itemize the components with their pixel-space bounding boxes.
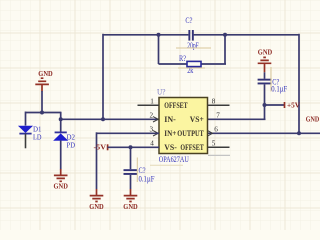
capacitor C? 20pF (185, 15, 199, 50)
svg-text:8: 8 (212, 98, 216, 106)
wire feedback right vertical to output (298, 34, 300, 134)
svg-text:GND: GND (89, 202, 104, 211)
capacitor C? 0.1uF (VS+ decoupling) (258, 78, 288, 94)
resistor R? 2k (179, 54, 201, 75)
junction at feedback left (157, 33, 161, 37)
svg-text:5: 5 (212, 140, 216, 148)
svg-text:OUTPUT: OUTPUT (177, 129, 204, 138)
wire cap down to +5V junction (264, 84, 266, 119)
pin 8 stub (208, 98, 230, 106)
svg-text:LD: LD (33, 132, 42, 141)
svg-text:3: 3 (150, 126, 154, 134)
pin 4 VS- stub (150, 140, 154, 148)
svg-text:0.1µF: 0.1µF (139, 174, 155, 183)
svg-text:GND: GND (54, 182, 69, 191)
diode D1 LD (19, 112, 42, 149)
wire left horizontal upper (D1 to jog) (26, 112, 61, 114)
svg-text:PD: PD (67, 140, 76, 149)
junction output / feedback (297, 131, 301, 135)
junction at feedback right (223, 33, 227, 37)
junction at jog / D2 top (59, 117, 63, 121)
svg-text:-5V: -5V (94, 143, 107, 152)
wire resistor left lead (159, 63, 188, 65)
wire VS+ pin7 to +5V branch (208, 118, 266, 120)
wire cap to ground (130, 175, 132, 189)
gray mark under pin5 (208, 154, 230, 156)
wire top-right gnd to cap (264, 72, 266, 79)
svg-text:GND: GND (258, 48, 273, 57)
wire resistor right lead (201, 63, 226, 65)
wire -5V to pin 4 (108, 146, 159, 148)
wire junction down to cap (130, 147, 132, 169)
pin 5 OFFSET stub (208, 140, 230, 148)
svg-text:IN-: IN- (164, 115, 176, 124)
svg-text:U?: U? (157, 88, 166, 97)
svg-text:VS+: VS+ (190, 115, 204, 124)
wire IN+ vertical down (96, 132, 98, 189)
junction +5V node (263, 103, 267, 107)
pin 7 VS+ (216, 112, 220, 120)
diode D2 PD (54, 112, 76, 170)
pin 6 OUTPUT arrow (208, 126, 218, 136)
tan mark at right cap (270, 67, 272, 92)
pin 3 IN+ arrow (150, 126, 159, 136)
wire feedback top horizontal left segment (103, 34, 188, 36)
ground GND top-left (35, 69, 53, 92)
op-amp U? OPA627AU body (157, 88, 208, 165)
power port -5V (94, 143, 108, 152)
IC label IN- pin2 (164, 115, 176, 124)
ground GND under bottom cap (123, 189, 138, 211)
svg-text:OPA627AU: OPA627AU (159, 155, 189, 164)
svg-text:2k: 2k (187, 66, 193, 75)
svg-text:VS-: VS- (164, 143, 177, 152)
IC label IN+ pin3 (164, 129, 176, 138)
junction of GND wire on upper wire (40, 111, 44, 115)
resistor R? branch right vertical (224, 35, 226, 64)
tan mark under OPA627AU (150, 164, 183, 166)
ground GND under D2 (54, 169, 69, 191)
wire +5V stub (265, 104, 285, 106)
junction VS- / cap branch (129, 145, 133, 149)
junction IN- / feedback vertical (101, 117, 105, 121)
wire feedback top horizontal right segment (194, 34, 299, 36)
tan mark under 2k (178, 67, 205, 69)
ground GND under IN+ wire (89, 189, 104, 211)
svg-text:4: 4 (150, 140, 154, 148)
wire OUTPUT pin6 to right edge (208, 132, 320, 134)
tan mark under 20pF (176, 47, 211, 49)
capacitor C? 0.1uF (VS- decoupling) (124, 166, 155, 183)
svg-text:7: 7 (216, 112, 220, 120)
wire feedback left vertical to IN- (102, 34, 104, 120)
pin 2 IN- arrow (150, 112, 159, 122)
resistor R? branch left vertical (158, 35, 160, 64)
wire IN- horizontal from jog to IC pin2 (61, 118, 159, 120)
pin 1 OFFSET stub (138, 98, 160, 106)
tan mark at bottom cap (136, 158, 138, 183)
svg-text:GND: GND (123, 202, 138, 211)
svg-text:0.1µF: 0.1µF (271, 85, 287, 94)
svg-text:OFFSET: OFFSET (164, 101, 188, 110)
IC label VS+ pin7 (190, 115, 204, 124)
svg-text:+5V: +5V (287, 101, 301, 110)
svg-text:2: 2 (150, 112, 154, 120)
svg-text:C?: C? (185, 15, 192, 25)
IC label OUTPUT pin6 (177, 129, 204, 138)
svg-text:R?: R? (179, 54, 186, 63)
IC label OFFSET pin5 (180, 143, 204, 152)
svg-text:GND: GND (306, 115, 320, 124)
svg-text:GND: GND (38, 69, 53, 78)
svg-text:IN+: IN+ (164, 129, 176, 138)
svg-text:1: 1 (150, 98, 154, 106)
power port +5V (285, 101, 301, 110)
IC label VS- pin4 (164, 143, 177, 152)
svg-text:OFFSET: OFFSET (180, 143, 204, 152)
ground GND top-right (258, 48, 273, 73)
svg-text:6: 6 (214, 126, 218, 134)
IC label OFFSET pin1 (164, 101, 188, 110)
net label GND right (306, 115, 320, 124)
wire from top-left GND down (41, 91, 43, 113)
wire IN+ pin3 to ground (97, 132, 160, 134)
